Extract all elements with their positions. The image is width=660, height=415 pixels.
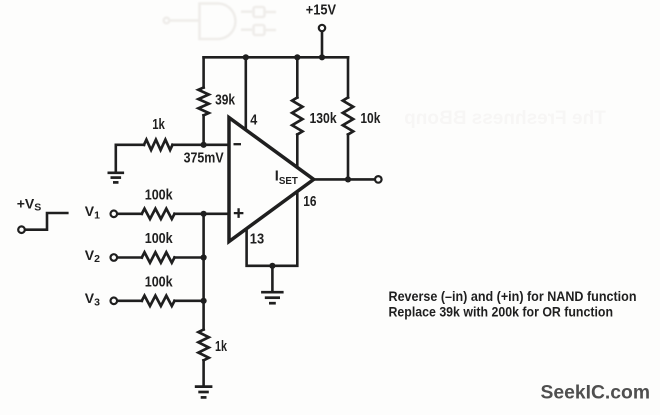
svg-text:1k: 1k bbox=[215, 338, 227, 355]
svg-text:375mV: 375mV bbox=[184, 149, 224, 166]
svg-text:10k: 10k bbox=[360, 110, 381, 127]
svg-text:4: 4 bbox=[250, 111, 258, 128]
svg-text:The Freshness BBonp: The Freshness BBonp bbox=[404, 108, 606, 129]
svg-text:130k: 130k bbox=[310, 110, 338, 127]
svg-text:100k: 100k bbox=[145, 230, 174, 247]
svg-text:1k: 1k bbox=[152, 116, 165, 133]
svg-text:Reverse (–in) and (+in) for NA: Reverse (–in) and (+in) for NAND functio… bbox=[389, 288, 637, 304]
svg-text:16: 16 bbox=[303, 193, 316, 210]
svg-text:+15V: +15V bbox=[306, 2, 336, 19]
svg-text:39k: 39k bbox=[215, 92, 236, 109]
svg-text:Replace 39k with 200k for OR f: Replace 39k with 200k for OR function bbox=[389, 304, 614, 320]
svg-text:SeekIC.com: SeekIC.com bbox=[541, 383, 651, 404]
svg-text:100k: 100k bbox=[145, 187, 174, 204]
svg-text:100k: 100k bbox=[145, 274, 174, 291]
svg-text:13: 13 bbox=[250, 230, 264, 247]
